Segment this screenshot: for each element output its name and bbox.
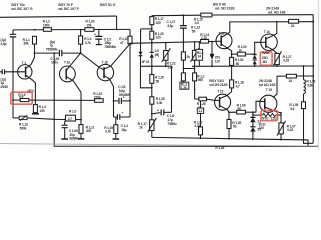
resistor R24a (collector to rail) xyxy=(289,19,299,23)
page bottom border xyxy=(0,144,319,147)
potentiometer R1.17b 2k xyxy=(150,120,154,131)
svg-text:15k: 15k xyxy=(86,23,91,27)
page right edge xyxy=(317,0,319,150)
capacitor C1.6 17u (mid coupling) xyxy=(152,113,161,114)
svg-text:T 1: T 1 xyxy=(22,61,27,65)
svg-text:1,2k: 1,2k xyxy=(201,36,207,40)
svg-text:4,7k: 4,7k xyxy=(85,41,91,45)
wire T5 base feed xyxy=(195,98,199,100)
wire bus corner down through R47 xyxy=(129,29,131,36)
node R220/R120 junction xyxy=(151,28,153,30)
node cap tap y114 xyxy=(151,113,153,115)
wire T7 collector from y76 xyxy=(273,76,277,97)
wire bias mid bus y66.2 xyxy=(140,65,171,67)
wire bus corner down to C1 xyxy=(12,30,14,34)
svg-text:3,3: 3,3 xyxy=(195,21,199,25)
svg-text:4,7: 4,7 xyxy=(236,84,240,88)
svg-text:NTC - 15Ω: NTC - 15Ω xyxy=(262,117,277,121)
resistor R24b xyxy=(277,75,286,77)
diode D4 xyxy=(250,126,255,128)
highlight red box A xyxy=(11,92,32,104)
wire feedback line y=100 xyxy=(13,99,95,101)
node NTC tap xyxy=(252,114,254,116)
wire to T6 base xyxy=(255,42,261,54)
svg-text:BSY 51 G: BSY 51 G xyxy=(100,3,116,7)
svg-text:T 1b: T 1b xyxy=(102,60,108,64)
potentiometer volume control 500k xyxy=(13,117,19,119)
resistor R1.23b lower xyxy=(181,73,185,81)
node bias ladder mid xyxy=(151,87,153,89)
svg-text:od. AD 148: od. AD 148 xyxy=(268,11,286,15)
resistor R1.14 1,2k (T4 base) xyxy=(201,40,209,44)
wire base bias bus (upper left) xyxy=(13,28,130,31)
resistor R1.20 15k xyxy=(85,28,94,32)
svg-text:56: 56 xyxy=(156,79,160,83)
wire T3 collector up to x130 column xyxy=(104,44,130,69)
svg-text:10μ: 10μ xyxy=(121,128,126,132)
node bus2 junctions xyxy=(151,41,213,44)
capacitor C1.2 (rail decoupling) xyxy=(182,15,184,25)
inductor L1 xyxy=(303,66,305,80)
svg-text:560: 560 xyxy=(198,78,203,82)
wire x171.5 column to C17u xyxy=(171,66,173,112)
svg-text:od. BC 107 F: od. BC 107 F xyxy=(58,7,79,11)
wire rail drop at x=116.6 xyxy=(116,16,118,30)
svg-text:56: 56 xyxy=(237,107,241,111)
node base of T1 xyxy=(12,71,14,73)
svg-text:220: 220 xyxy=(156,21,161,25)
node bottom junctions xyxy=(200,137,282,140)
diode D0 AF21 xyxy=(138,52,142,56)
ground R3,7k xyxy=(113,138,120,140)
svg-text:150k: 150k xyxy=(43,23,50,27)
node T6 base junction xyxy=(254,53,256,55)
wire T3 emitter down xyxy=(104,75,114,117)
svg-text:75/80v: 75/80v xyxy=(167,122,177,126)
svg-text:2k: 2k xyxy=(139,126,143,130)
svg-text:24: 24 xyxy=(291,24,295,28)
node T7 emitter junction xyxy=(280,112,282,114)
wire top supply rail right segment xyxy=(152,14,201,17)
capacitor C1.05 coupling xyxy=(59,50,61,56)
node cap C30u tap xyxy=(64,119,66,121)
boxed label lower xyxy=(200,101,202,108)
svg-text:1,2k: 1,2k xyxy=(181,86,187,90)
node emitter wire to diodes xyxy=(252,111,254,113)
wire long vertical x=140.4 xyxy=(141,28,152,30)
svg-text:220k: 220k xyxy=(94,95,101,99)
svg-text:+: + xyxy=(94,32,96,36)
resistor R (below coil) xyxy=(302,102,306,109)
resistor R1.15 (series in rail) xyxy=(201,13,212,17)
svg-text:1,2: 1,2 xyxy=(198,109,202,113)
resistor R1.25 3,3k xyxy=(150,97,154,104)
wire C1 down left column xyxy=(12,37,14,118)
svg-text:T 15: T 15 xyxy=(266,88,272,92)
wire signal bus to driver xyxy=(130,41,216,43)
capacitor C1.4 (lower) xyxy=(117,114,119,120)
svg-text:100n: 100n xyxy=(51,61,58,65)
diode D2b xyxy=(253,59,257,61)
svg-text:3,3μ: 3,3μ xyxy=(167,24,173,28)
node emitter feedback tap xyxy=(35,99,37,101)
resistor R1.3 4,7k xyxy=(79,36,83,44)
diode D3 xyxy=(250,116,255,118)
resistor R1.24 560 xyxy=(193,73,197,81)
resistor box 4,7 (emitter network) xyxy=(66,115,76,121)
diode D1 (bias) xyxy=(151,43,153,52)
resistor R1.51 56 (T4 emitter) xyxy=(230,57,234,65)
highlight red box B xyxy=(260,52,272,65)
svg-text:56: 56 xyxy=(192,29,196,33)
svg-text:3F 21: 3F 21 xyxy=(142,60,150,64)
ground R820 xyxy=(78,138,85,140)
resistor R1.06 56 (horizontal) xyxy=(229,111,237,113)
svg-text:2k: 2k xyxy=(186,55,190,59)
wire T5 collector xyxy=(220,95,228,98)
svg-text:3,7k: 3,7k xyxy=(105,130,111,134)
svg-text:5,6: 5,6 xyxy=(290,107,294,111)
resistor R1.2 150k xyxy=(43,28,51,32)
svg-text:od 2N 2189: od 2N 2189 xyxy=(209,83,227,87)
potentiometer R1.17c 0,33 (T6 emitter) xyxy=(275,53,279,64)
ground T1 emitter xyxy=(32,113,39,115)
wire bottom return xyxy=(152,137,308,146)
svg-text:T 12: T 12 xyxy=(218,31,224,35)
svg-text:1,2k: 1,2k xyxy=(167,65,173,69)
svg-text:1k: 1k xyxy=(238,49,242,53)
node T5 emitter xyxy=(228,111,230,113)
svg-text:(M): (M) xyxy=(155,53,160,57)
svg-text:6(8)Mv: 6(8)Mv xyxy=(69,137,79,141)
svg-text:R 1,0: R 1,0 xyxy=(69,110,76,114)
wire rail right continuation xyxy=(212,14,313,16)
node junction dots on upper bus xyxy=(34,29,118,31)
potentiometer pot2 xyxy=(194,42,196,50)
resistor R1.29 3,7k xyxy=(115,117,117,125)
wire T7 emitter xyxy=(265,107,281,123)
transistor T5 xyxy=(215,94,231,110)
wire switch line through box xyxy=(54,118,81,120)
wire top supply rail left segment xyxy=(0,16,117,17)
resistor R1.17 220 (from rail) xyxy=(150,17,154,25)
svg-text:od. SD 2183: od. SD 2183 xyxy=(215,7,234,11)
svg-text:4,7: 4,7 xyxy=(68,117,72,121)
wire T2 emitter down xyxy=(66,76,81,119)
svg-text:0,33: 0,33 xyxy=(287,128,293,132)
svg-text:39k: 39k xyxy=(23,42,28,46)
capacitor C1.1 100u (bypass) xyxy=(98,30,100,37)
svg-text:25/30: 25/30 xyxy=(0,85,8,89)
svg-text:+: + xyxy=(157,109,159,113)
svg-text:5,6k: 5,6k xyxy=(307,83,313,87)
wire feedback return column xyxy=(54,53,318,146)
svg-text:75/80Mv: 75/80Mv xyxy=(104,45,116,49)
svg-text:35/40Mv: 35/40Mv xyxy=(119,93,131,97)
resistor R1.11 820 xyxy=(79,125,83,134)
node T6 collector tap xyxy=(276,21,278,23)
wire T5 emitter xyxy=(220,106,229,120)
highlight red box C xyxy=(261,111,278,121)
node T4 emitter tap xyxy=(231,53,233,55)
wire T1 emitter down xyxy=(33,81,35,105)
transistor T4 xyxy=(216,33,232,49)
resistor R1.20b 120 xyxy=(150,31,154,39)
resistor R1.23 xyxy=(181,52,185,60)
wire T6 emitter xyxy=(266,46,277,54)
node switch wire junction xyxy=(53,119,55,121)
svg-text:T 14: T 14 xyxy=(264,30,270,34)
wire T2 base from coupling junction xyxy=(66,53,80,70)
svg-text:820: 820 xyxy=(86,129,91,133)
capacitor C1.09 30u xyxy=(64,121,66,125)
node bus2 start xyxy=(129,43,131,45)
wire output mid bus xyxy=(192,65,313,67)
node T1 collector coupling tap xyxy=(34,52,36,54)
wire T4 emitter xyxy=(221,44,231,57)
wire right supply drop xyxy=(312,15,314,144)
svg-text:4,5μ: 4,5μ xyxy=(0,42,6,46)
node T2 emitter junctions xyxy=(80,119,82,121)
potentiometer pot1 1,2k xyxy=(165,43,167,51)
resistor R1.52 56 (vertical to gnd bus) xyxy=(227,120,231,129)
transistor T2 xyxy=(60,66,76,82)
svg-text:24: 24 xyxy=(198,55,202,59)
wire long column x130 xyxy=(129,44,131,117)
svg-text:T 13: T 13 xyxy=(217,89,223,93)
svg-text:47: 47 xyxy=(120,41,124,45)
diode Z1 zener xyxy=(211,42,213,55)
resistor ticks in red box B xyxy=(262,52,269,53)
transistor T6 xyxy=(261,34,278,51)
svg-text:75/80Mv: 75/80Mv xyxy=(46,48,58,52)
NTC thermistor (red box C) xyxy=(253,114,263,116)
wire coupling from T1 collector xyxy=(35,52,59,54)
resistor R1.16 47 xyxy=(128,36,132,44)
svg-text:150: 150 xyxy=(39,109,44,113)
resistor R1.4 150 (T1 emitter) xyxy=(33,105,37,113)
svg-text:-8Ω: -8Ω xyxy=(262,60,268,64)
wire T1 collector up xyxy=(31,44,34,64)
node y68.5 xyxy=(183,68,185,70)
svg-text:110: 110 xyxy=(215,59,220,63)
node C ladder right junction xyxy=(129,100,131,102)
capacitor C1.1 electrolytic xyxy=(10,34,16,37)
wire T4 collector xyxy=(221,22,313,38)
svg-text:120: 120 xyxy=(156,36,161,40)
node coupling junction xyxy=(80,52,82,54)
resistor R1.27 3,3k xyxy=(200,113,202,127)
svg-text:T 1a: T 1a xyxy=(64,61,70,65)
ground C30u xyxy=(61,138,68,140)
svg-text:500k: 500k xyxy=(20,126,27,130)
node feedback junctions xyxy=(12,99,82,101)
resistor R1.26 22 (T5 base) xyxy=(199,97,207,101)
transistor T3 xyxy=(97,64,113,80)
diode D2a xyxy=(253,54,257,56)
svg-text:R 1,53: R 1,53 xyxy=(215,146,224,150)
capacitor C input coupling xyxy=(2,69,4,74)
resistor R1.1 39k (T1 collector load) xyxy=(33,36,37,44)
svg-text:3,3k: 3,3k xyxy=(156,101,162,105)
node bus3 junctions xyxy=(211,65,314,67)
svg-text:25Ω: 25Ω xyxy=(262,56,268,60)
wire T6 collector xyxy=(266,22,277,39)
svg-text:56: 56 xyxy=(233,125,237,129)
resistor R1.21 560 xyxy=(150,75,154,84)
transistor T7 xyxy=(260,95,277,112)
resistor R1.10 220k xyxy=(95,99,104,103)
svg-text:od AD 166: od AD 166 xyxy=(259,83,276,87)
svg-text:+: + xyxy=(121,111,123,115)
svg-text:24: 24 xyxy=(289,79,293,83)
boxed meter 24 xyxy=(198,42,200,50)
svg-text:56: 56 xyxy=(236,62,240,66)
transistor T1 xyxy=(18,65,32,79)
resistor R1.00 1k xyxy=(232,53,238,55)
resistor R1.18 4,7 xyxy=(230,80,234,88)
svg-text:0,33: 0,33 xyxy=(283,59,289,63)
wire T3 base from coupling junction xyxy=(81,53,104,70)
svg-text:220: 220 xyxy=(259,126,264,130)
node T3 emitter / C ladder xyxy=(113,100,115,102)
svg-text:od. BC 107 G: od. BC 107 G xyxy=(11,7,32,11)
wire T7 base xyxy=(253,101,265,112)
potentiometer R1.07 0,33 (T7 emitter) xyxy=(279,123,283,134)
boxed label 1,2k xyxy=(180,82,189,89)
capacitor C1.3 5,6u xyxy=(114,100,119,102)
